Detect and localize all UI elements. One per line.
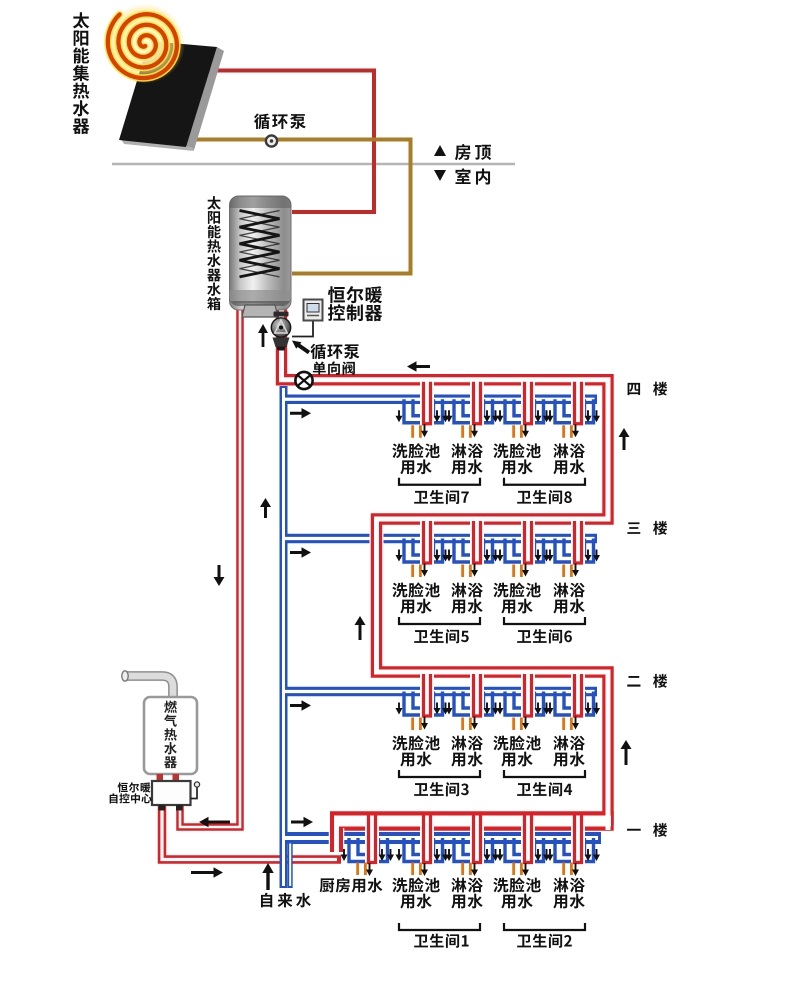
up arrow tap water	[266, 872, 269, 890]
floor4 flow arrow	[290, 412, 303, 415]
solar tank body	[230, 196, 292, 317]
floor1 hot main pipe	[330, 811, 614, 831]
label 卫生间7	[414, 490, 469, 504]
label 循环泵 (roof pump)	[254, 113, 306, 129]
floor4 fixture labels	[392, 443, 585, 474]
label 卫生间3	[414, 782, 469, 796]
label 卫生间2	[517, 934, 572, 948]
tap water inlet second pipe	[288, 844, 293, 889]
label 太阳能热水器水箱	[207, 196, 221, 310]
controller box	[292, 300, 323, 337]
cold floor mains	[280, 399, 597, 691]
return pipe tank to collector (tan)	[178, 140, 411, 274]
floor1 flow arrow	[291, 821, 305, 824]
heater-control stubs	[157, 774, 180, 782]
hot water supply snake pipe (pump to floors)	[282, 302, 609, 825]
roof arrow up	[434, 145, 446, 156]
floor1 bathroom brackets	[399, 923, 585, 930]
floor3 fixture loops	[396, 521, 601, 578]
floor3 fixture labels	[392, 582, 585, 613]
gas heater flue	[122, 671, 173, 698]
label 卫生间5	[414, 629, 469, 643]
floor1 fixture labels	[320, 877, 585, 908]
floor4 bathroom brackets	[399, 478, 585, 485]
circulation pump (tank)	[271, 312, 290, 351]
hot pipe crossing over cold main (floor1 left)	[329, 828, 345, 852]
up arrow right floor2	[625, 748, 628, 765]
tank hot riser pipe	[180, 302, 240, 827]
floor2 flow arrow	[290, 704, 303, 707]
pump pointer arrow	[292, 341, 309, 353]
floor3 bathroom brackets	[399, 617, 585, 624]
label 单向阀	[313, 361, 355, 374]
left arrow return line	[416, 365, 431, 368]
up arrow mid riser	[264, 506, 267, 518]
label 控制器	[328, 304, 382, 321]
label 循环泵 (tank pump)	[311, 344, 360, 359]
tank heat exchanger coil	[240, 211, 280, 277]
floor2 bathroom brackets	[399, 770, 585, 777]
circulation pump (roof)	[266, 135, 277, 146]
roof line	[112, 163, 515, 166]
up arrow at pump	[262, 332, 265, 347]
right arrow heater outlet	[191, 871, 215, 874]
floor1 fixture loops	[341, 813, 601, 876]
label 自来水	[261, 893, 311, 908]
sun spiral	[105, 4, 185, 84]
label 恒尔暖 (bottom)	[118, 782, 151, 792]
label 太阳能集热水器	[73, 12, 90, 134]
hot pipe crossing over cold main (floor3 left)	[370, 527, 384, 551]
label 卫生间6	[517, 629, 572, 643]
cold water riser pipe	[280, 386, 288, 888]
label 恒尔暖	[328, 286, 382, 303]
indoor arrow down	[434, 170, 446, 181]
floor1 hot main left elbow	[330, 814, 343, 852]
cold pipe inner whites	[282, 388, 285, 886]
hot pipe collector to tank	[208, 71, 374, 213]
label 室内	[455, 168, 490, 184]
label 卫生间8	[517, 490, 572, 504]
label 燃气热水器	[164, 701, 177, 769]
floor3 flow arrow	[290, 551, 303, 554]
down arrow hot riser	[218, 565, 221, 578]
up arrow left floor3	[359, 624, 362, 640]
floor2 fixture loops	[396, 674, 601, 731]
label 卫生间1	[414, 934, 468, 948]
left arrow into heater	[208, 821, 231, 824]
floor4 fixture loops	[396, 381, 601, 438]
label 三楼	[627, 521, 667, 535]
pipe inner whites	[282, 299, 609, 830]
label 一楼	[627, 823, 667, 837]
label 卫生间4	[517, 782, 572, 796]
check valve	[295, 372, 312, 389]
label 房顶	[455, 144, 491, 160]
control center box	[152, 781, 200, 811]
gas heater body	[144, 697, 197, 774]
label 自控中心	[110, 793, 152, 803]
label 二楼	[627, 674, 667, 688]
up arrow right floor4	[623, 436, 626, 450]
label 四楼	[628, 382, 668, 396]
solar collector panel	[119, 41, 224, 151]
floor2 fixture labels	[392, 735, 585, 766]
gas heater outlet pipe	[162, 806, 341, 860]
